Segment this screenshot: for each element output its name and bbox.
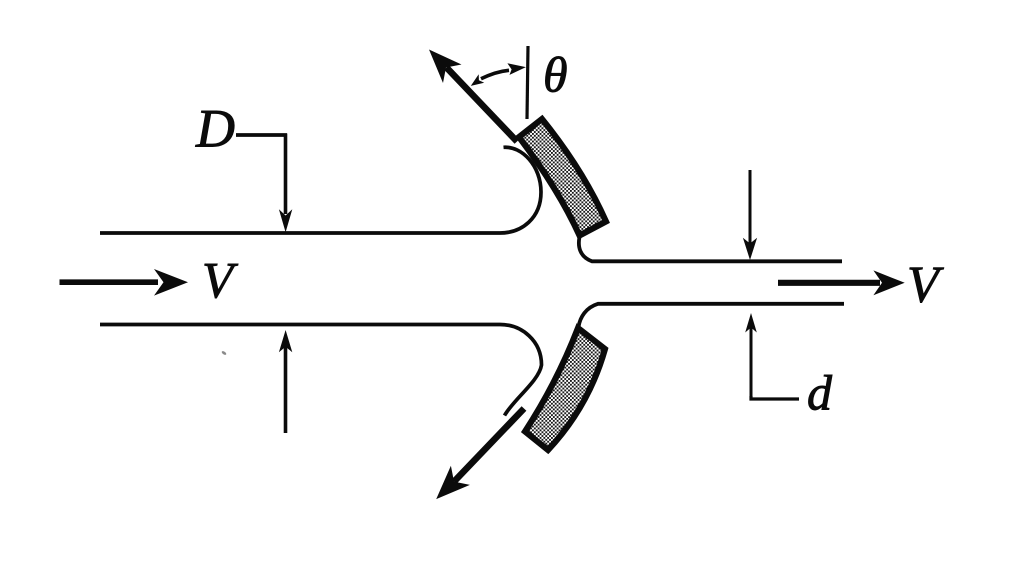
inlet velocity bold arrow V (shaft) <box>60 279 159 285</box>
bold deflected-flow arrow, upper (shaft) <box>447 68 518 142</box>
inlet velocity bold arrow V (head) <box>154 269 188 296</box>
outlet velocity bold arrow V (shaft) <box>778 280 880 286</box>
D dimension arrow (vertical line down to top wall) <box>284 134 288 215</box>
scan speck <box>221 350 227 355</box>
bold deflected-flow arrow, upper (head) <box>429 50 462 84</box>
theta reference vertical line <box>527 46 528 119</box>
theta angle arc with arrowheads <box>481 70 509 79</box>
bold deflected-flow arrow, lower (shaft) <box>454 409 524 482</box>
upper deflector vane (stippled) <box>519 119 606 236</box>
bold deflected-flow arrow, lower (head) <box>436 466 470 499</box>
svg-text:d: d <box>807 365 833 421</box>
svg-text:V: V <box>907 257 944 314</box>
D dimension arrow from below (points up at bottom wall) <box>284 344 288 433</box>
svg-text:V: V <box>202 254 239 310</box>
top duct wall with upward curl <box>100 147 541 233</box>
d dimension arrow pointing up at jet lower wall <box>750 325 753 398</box>
bottom duct wall with downward curl <box>100 325 542 416</box>
d leader: corner to label <box>751 396 799 399</box>
D leader: horizontal tick <box>236 133 287 137</box>
lower deflector vane (stippled) <box>525 328 605 450</box>
d dimension arrow pointing down at jet upper wall <box>749 170 752 246</box>
svg-text:θ: θ <box>543 47 568 103</box>
small jet upper wall <box>579 237 842 261</box>
svg-text:D: D <box>195 99 235 159</box>
outlet velocity bold arrow V (head) <box>873 270 904 295</box>
small jet lower wall <box>579 304 845 327</box>
